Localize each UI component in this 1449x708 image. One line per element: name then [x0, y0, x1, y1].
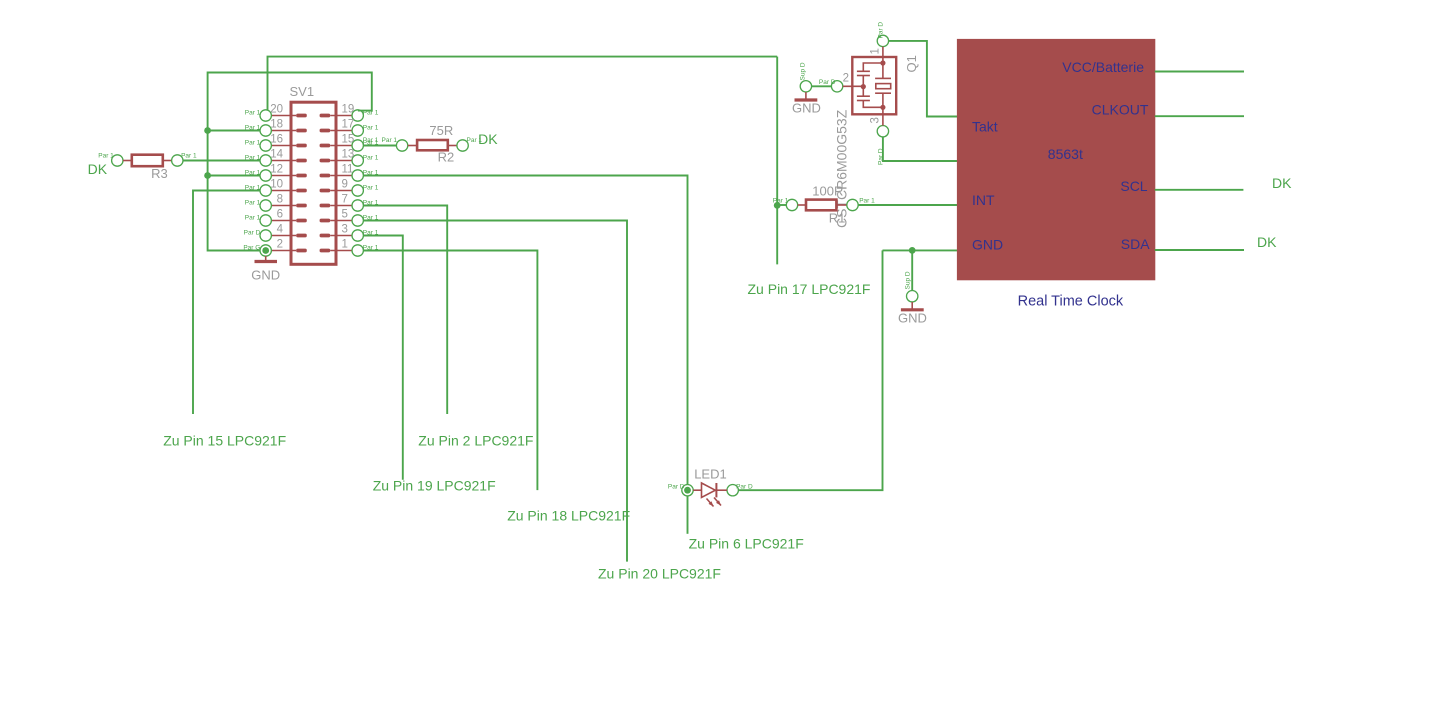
svg-text:Par 1: Par 1 — [363, 154, 379, 161]
svg-text:Par 1: Par 1 — [98, 153, 114, 160]
wire pin7 to Zu Pin 2 — [364, 206, 448, 415]
connector SV1 — [271, 102, 352, 264]
wire Q1 pin1 to RTC Takt — [889, 41, 958, 117]
svg-text:Zu Pin 17 LPC921F: Zu Pin 17 LPC921F — [748, 281, 871, 297]
junction pin2 — [262, 247, 269, 254]
net label pin 2 — [243, 244, 260, 251]
wire Q1 pin2 to GND — [812, 85, 832, 87]
label SV1 — [290, 84, 315, 99]
net label R2 right — [467, 137, 483, 144]
resistor R3 — [112, 155, 183, 181]
svg-text:Par 1: Par 1 — [859, 198, 875, 205]
wire CLKOUT — [1155, 115, 1244, 117]
label net Zu Pin 20 LPC921F — [598, 566, 721, 582]
svg-text:Par 1: Par 1 — [382, 137, 398, 144]
ground GND at SV1 pin2 — [251, 256, 280, 283]
pin number 3 Q1 — [870, 117, 882, 123]
svg-text:GND: GND — [972, 236, 1003, 252]
svg-text:DK: DK — [1257, 234, 1277, 250]
svg-text:Par D: Par D — [668, 483, 685, 490]
net label pin 13 — [363, 154, 379, 161]
svg-text:Zu Pin 15 LPC921F: Zu Pin 15 LPC921F — [163, 433, 286, 449]
svg-text:Zu Pin 2 LPC921F: Zu Pin 2 LPC921F — [418, 433, 533, 449]
svg-text:1: 1 — [342, 238, 348, 250]
label net Zu Pin 18 LPC921F — [507, 507, 630, 523]
net label pin 17 — [363, 124, 379, 131]
svg-text:2: 2 — [843, 73, 849, 85]
IC U1 Real Time Clock 8563t — [957, 39, 1154, 279]
svg-text:Zu Pin 18 LPC921F: Zu Pin 18 LPC921F — [507, 507, 630, 523]
svg-text:GND: GND — [898, 311, 927, 326]
net label pin 6 — [245, 214, 261, 221]
wire pin5 to Zu Pin 20 — [364, 221, 628, 562]
svg-text:75R: 75R — [429, 123, 453, 138]
net label Q1 pin1 — [878, 22, 885, 39]
svg-text:GND: GND — [251, 268, 280, 283]
pin 11 SV1 — [342, 163, 364, 181]
wire pin18 branch — [208, 130, 260, 132]
svg-text:Par D: Par D — [878, 148, 885, 165]
svg-text:100R: 100R — [812, 183, 843, 198]
svg-text:Par 1: Par 1 — [363, 137, 379, 144]
wire SCL — [1155, 189, 1244, 191]
resistor R1 value 100R — [786, 183, 858, 225]
net label Sup D at Q1 GND — [800, 62, 807, 80]
net label R1 right — [859, 198, 875, 205]
net label pin 5 — [363, 214, 379, 221]
net label LED left — [668, 483, 685, 490]
svg-text:9: 9 — [342, 178, 348, 190]
pin 2 SV1 — [260, 238, 283, 256]
label net DK at SDA — [1257, 234, 1277, 250]
pin 20 SV1 — [260, 103, 283, 121]
wire pin3 to Zu Pin 19 — [364, 236, 403, 480]
wire pin12 branch — [208, 175, 260, 177]
svg-text:Sup D: Sup D — [905, 271, 912, 289]
net label pin 1 — [363, 244, 379, 251]
svg-text:VCC/Batterie: VCC/Batterie — [1062, 59, 1144, 75]
ground GND at Q1 — [792, 81, 821, 116]
pin 15 SV1 — [342, 133, 364, 151]
svg-text:7: 7 — [342, 193, 348, 205]
label net DK at SCL — [1272, 175, 1292, 191]
net label R1 left — [773, 198, 789, 205]
svg-text:Par D: Par D — [819, 79, 836, 86]
label net Zu Pin 15 LPC921F — [163, 433, 286, 449]
svg-text:8563t: 8563t — [1048, 146, 1083, 162]
net label pin 11 — [363, 169, 379, 176]
svg-text:19: 19 — [342, 103, 355, 115]
net label R3 left — [98, 153, 114, 160]
label net Zu Pin 2 LPC921F — [418, 433, 533, 449]
svg-text:SCL: SCL — [1120, 178, 1147, 194]
pin 8 SV1 — [260, 193, 283, 211]
net label pin15-R2 a — [363, 137, 379, 144]
svg-text:3: 3 — [342, 223, 348, 235]
junction pin18 rail — [204, 127, 211, 134]
wire pin20 to net Zu Pin 17 — [268, 57, 778, 111]
pin 6 SV1 — [260, 208, 283, 226]
svg-text:R1: R1 — [829, 211, 846, 226]
net label Sup D at RTC GND — [905, 271, 912, 289]
svg-text:12: 12 — [270, 163, 283, 175]
label net Zu Pin 19 LPC921F — [373, 478, 496, 494]
wire R1 to RTC INT — [858, 204, 957, 206]
svg-text:17: 17 — [342, 118, 355, 130]
net label pin 3 — [363, 229, 379, 236]
net label pin 7 — [363, 199, 379, 206]
wire pin1 to Zu Pin 18 — [364, 251, 538, 491]
svg-text:Real Time Clock: Real Time Clock — [1018, 294, 1124, 310]
svg-text:DK: DK — [1272, 175, 1292, 191]
svg-text:18: 18 — [270, 118, 283, 130]
pin 3 SV1 — [342, 223, 364, 241]
svg-text:Par 1: Par 1 — [773, 198, 789, 205]
ground GND at RTC — [898, 291, 927, 326]
svg-text:8: 8 — [277, 193, 283, 205]
svg-text:Par 1: Par 1 — [363, 184, 379, 191]
svg-text:5: 5 — [342, 208, 348, 220]
svg-text:14: 14 — [270, 148, 283, 160]
pin 10 SV1 — [260, 178, 283, 196]
pin 7 SV1 — [342, 193, 364, 211]
svg-text:Par 1: Par 1 — [181, 153, 197, 160]
svg-text:DK: DK — [88, 161, 108, 177]
svg-text:Zu Pin 6 LPC921F: Zu Pin 6 LPC921F — [689, 536, 804, 552]
svg-text:R3: R3 — [151, 166, 168, 181]
net label pin 20 — [245, 109, 261, 116]
wire VCC/Batterie — [1155, 71, 1244, 73]
pin 4 SV1 — [260, 223, 284, 241]
resistor R2 value 75R — [396, 123, 468, 165]
net label pin 10 — [245, 184, 261, 191]
svg-text:16: 16 — [270, 133, 283, 145]
svg-text:GND: GND — [792, 101, 821, 116]
wire R3 to pin14 — [183, 160, 260, 162]
wire Q1 pin3 to RTC osc — [883, 137, 958, 161]
wire LED cathode riser — [738, 250, 882, 490]
svg-text:Q1: Q1 — [904, 55, 919, 72]
svg-text:R2: R2 — [438, 150, 455, 165]
svg-text:Takt: Takt — [972, 118, 998, 134]
pin 18 SV1 — [260, 118, 283, 136]
svg-text:10: 10 — [270, 178, 283, 190]
svg-text:Par D: Par D — [736, 483, 753, 490]
wire RTC GND net — [883, 249, 958, 251]
svg-text:Par 1: Par 1 — [363, 124, 379, 131]
pin 14 SV1 — [260, 148, 284, 166]
svg-text:6: 6 — [277, 208, 283, 220]
pin 16 SV1 — [260, 133, 283, 151]
net label pin 15 — [363, 139, 379, 146]
pin number 1 Q1 — [870, 48, 882, 54]
svg-text:Par 1: Par 1 — [245, 199, 261, 206]
svg-text:CLKOUT: CLKOUT — [1092, 101, 1149, 117]
value CSTCR6M00G53Z — [834, 109, 850, 228]
svg-text:1: 1 — [870, 48, 882, 54]
net label pin 4 — [244, 229, 261, 236]
junction pin12 rail — [204, 172, 211, 179]
net label pin 9 — [363, 184, 379, 191]
junction RTC GND — [909, 247, 916, 254]
net label pin 16 — [245, 139, 261, 146]
svg-text:Par 1: Par 1 — [245, 214, 261, 221]
net label Q1 pin3 — [878, 148, 885, 165]
label net DK at R2 — [478, 131, 498, 147]
pin 1 SV1 — [342, 238, 364, 256]
svg-text:11: 11 — [342, 163, 354, 175]
net label pin15-R2 b — [382, 137, 398, 144]
pin number 2 Q1 — [843, 73, 849, 85]
wire GND rail — [208, 73, 372, 251]
wire SDA — [1155, 249, 1244, 251]
svg-text:SDA: SDA — [1121, 236, 1150, 252]
pin 9 SV1 — [342, 178, 364, 196]
svg-text:Par D: Par D — [244, 229, 261, 236]
wire pin10 to Zu Pin 15 — [193, 191, 260, 415]
svg-text:Par D: Par D — [878, 22, 885, 39]
svg-text:Sup D: Sup D — [800, 62, 807, 80]
junction R1 left — [774, 202, 781, 209]
svg-text:INT: INT — [972, 192, 995, 208]
svg-text:DK: DK — [478, 131, 498, 147]
pin 13 SV1 — [342, 148, 364, 166]
svg-text:3: 3 — [870, 117, 882, 123]
net label Q1 pin2 — [819, 79, 836, 86]
wire pin11 to LED1 anode — [364, 176, 688, 485]
diode LED1 — [682, 466, 739, 506]
wire net stub Zu Pin 6 — [687, 496, 689, 534]
net label pin 14 — [245, 154, 261, 161]
pin 12 SV1 — [260, 163, 283, 181]
net label pin 18 — [245, 124, 261, 131]
net label pin 8 — [245, 199, 261, 206]
net label R3 right — [181, 153, 197, 160]
label Q1 — [904, 55, 919, 72]
net label pin 19 — [363, 109, 379, 116]
svg-text:LED1: LED1 — [694, 466, 727, 481]
svg-text:Zu Pin 19 LPC921F: Zu Pin 19 LPC921F — [373, 478, 496, 494]
svg-text:4: 4 — [277, 223, 284, 235]
wire net stub Zu Pin 17 — [776, 57, 778, 265]
pin 19 SV1 — [342, 103, 364, 121]
wire pin15 to R2 — [364, 145, 397, 147]
svg-text:15: 15 — [342, 133, 355, 145]
svg-text:2: 2 — [277, 238, 283, 250]
svg-text:13: 13 — [342, 148, 355, 160]
svg-text:Par 1: Par 1 — [245, 139, 261, 146]
svg-text:20: 20 — [270, 103, 283, 115]
crystal Q1 — [831, 35, 896, 137]
net label pin 12 — [245, 169, 261, 176]
svg-text:Zu Pin 20 LPC921F: Zu Pin 20 LPC921F — [598, 566, 721, 582]
svg-text:Par 1: Par 1 — [245, 109, 261, 116]
wire GND symbol drop — [911, 250, 913, 290]
label net Zu Pin 17 LPC921F — [748, 281, 871, 297]
svg-text:SV1: SV1 — [290, 84, 315, 99]
label Real Time Clock — [1018, 294, 1124, 310]
wire R1 left — [777, 204, 786, 206]
label net DK at R3 — [88, 161, 108, 177]
pin 17 SV1 — [342, 118, 364, 136]
label net Zu Pin 6 LPC921F — [689, 536, 804, 552]
net label LED right — [736, 483, 753, 490]
pin 5 SV1 — [342, 208, 364, 226]
